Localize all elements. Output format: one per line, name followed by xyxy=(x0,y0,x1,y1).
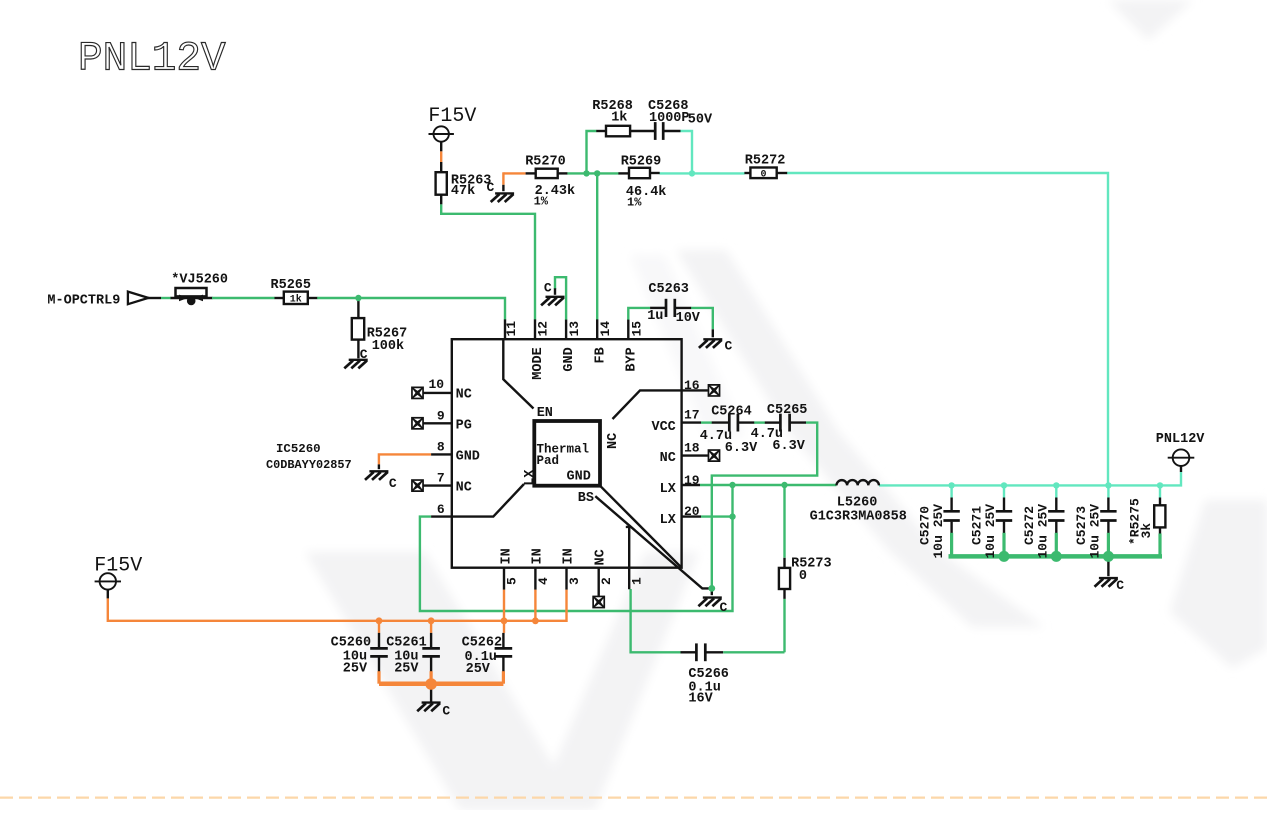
svg-text:19: 19 xyxy=(684,473,700,488)
svg-text:2: 2 xyxy=(599,577,614,585)
ground under C5260-C5262 xyxy=(417,703,440,712)
wire LX node down to R5273 xyxy=(783,485,785,558)
internal line BS to ground node xyxy=(595,496,709,588)
R5267 bottom lead xyxy=(357,340,359,359)
capacitor C5264 xyxy=(729,414,738,432)
pin 13 stub xyxy=(565,319,567,339)
pin 18 lead xyxy=(682,454,708,456)
C5271 bottom green stub xyxy=(1002,533,1005,557)
junction pin 4 xyxy=(532,617,539,624)
svg-text:25V: 25V xyxy=(343,661,368,676)
svg-text:3: 3 xyxy=(567,577,582,585)
R5265 right lead xyxy=(308,297,317,299)
C5260 bottom orange stub xyxy=(377,671,380,684)
C5266 left lead xyxy=(681,651,697,653)
stub to ground under bus xyxy=(1107,559,1109,576)
svg-text:C: C xyxy=(487,180,495,195)
ground at C5263 xyxy=(699,339,722,348)
C5261 bottom lead xyxy=(430,657,432,672)
wire R5263 to IC pin 12 MODE xyxy=(441,204,535,319)
svg-text:1%: 1% xyxy=(627,195,642,209)
svg-text:GND: GND xyxy=(562,347,577,371)
C5272 top teal stub xyxy=(1055,485,1057,497)
svg-text:VCC: VCC xyxy=(651,420,675,435)
pin 15 stub xyxy=(627,319,629,339)
internal line pin 6 to LX xyxy=(452,484,524,517)
wire FB pin 14 up to divider node xyxy=(596,173,598,319)
stub to ground at C5263 xyxy=(712,329,714,337)
pin 8 lead xyxy=(431,453,452,455)
capacitor C5272 xyxy=(1048,511,1064,520)
capacitor C5260 xyxy=(370,648,388,656)
capacitor C5262 xyxy=(495,648,513,656)
svg-text:16V: 16V xyxy=(688,692,713,707)
svg-text:C: C xyxy=(442,704,450,719)
C5264 right lead xyxy=(738,421,754,423)
resistor R5272 body xyxy=(750,168,776,179)
ground at R5267 xyxy=(344,360,367,369)
internal diagonal thermal pad to corner xyxy=(600,486,682,568)
C5273 bottom green stub xyxy=(1107,533,1110,557)
svg-text:IN: IN xyxy=(500,548,515,564)
junction FB node right xyxy=(594,170,600,176)
pin 3 lead xyxy=(565,568,567,590)
svg-text:C: C xyxy=(725,338,733,353)
R5275 top lead xyxy=(1159,498,1161,506)
stub to ground at R5270 xyxy=(502,185,504,191)
capacitor C5261 xyxy=(422,648,440,656)
svg-text:NC: NC xyxy=(594,549,609,565)
wire through VJ5260 xyxy=(171,297,213,299)
junction C5261 top xyxy=(428,617,435,624)
wire F15V bottom bus to IN pins xyxy=(108,590,567,621)
svg-text:10u 25V: 10u 25V xyxy=(1088,504,1103,559)
wire M-OPCTRL9 green segment to VJ5260 xyxy=(161,297,171,299)
no-connect symbol pin 2 xyxy=(592,596,605,609)
stub to ground at BS node xyxy=(711,591,713,595)
svg-text:EN: EN xyxy=(537,406,553,421)
svg-text:18: 18 xyxy=(684,441,700,456)
ground at pin 13 xyxy=(541,297,564,306)
svg-text:0: 0 xyxy=(799,569,807,584)
junction R5273 top xyxy=(781,482,787,488)
svg-text:C: C xyxy=(389,476,397,491)
C5260 bottom lead xyxy=(378,657,380,672)
svg-text:C5262: C5262 xyxy=(462,636,503,651)
junction ground bus C5271 xyxy=(999,551,1010,562)
svg-text:3k: 3k xyxy=(1139,523,1154,539)
wire C5263 to ground xyxy=(691,308,713,329)
pin 6 lead xyxy=(431,515,452,517)
svg-text:100k: 100k xyxy=(372,339,404,354)
IC5260 thermal pad xyxy=(534,421,600,486)
wire LX net to pin 6 xyxy=(420,485,733,611)
svg-text:GND: GND xyxy=(567,470,591,485)
svg-text:9: 9 xyxy=(437,408,445,423)
svg-text:G1C3R3MA0858: G1C3R3MA0858 xyxy=(810,510,907,525)
wire R5273 to C5266 xyxy=(783,599,785,652)
wire pin 4 IN to bus xyxy=(534,590,536,621)
inductor L5260 xyxy=(837,480,879,485)
svg-text:C5265: C5265 xyxy=(767,403,808,418)
wire bus to C5261 xyxy=(430,621,432,633)
pin 17 lead xyxy=(682,421,701,423)
wire bus to C5260 xyxy=(378,621,380,633)
resistor R5267 body xyxy=(352,318,364,340)
svg-text:5: 5 xyxy=(505,577,520,585)
svg-text:50V: 50V xyxy=(688,113,713,128)
svg-text:GND: GND xyxy=(456,449,480,464)
svg-text:C5263: C5263 xyxy=(648,282,689,297)
svg-text:C: C xyxy=(720,600,728,615)
svg-text:NC: NC xyxy=(660,451,676,466)
svg-text:IN: IN xyxy=(562,548,577,564)
svg-text:Pad: Pad xyxy=(537,454,560,468)
C5271 bottom lead xyxy=(1003,522,1005,534)
C5272 bottom lead xyxy=(1055,522,1057,534)
resistor R5273 body xyxy=(779,568,790,589)
svg-text:NC: NC xyxy=(606,433,621,449)
wire R5269 to R5272 xyxy=(660,172,745,174)
C5270 top lead xyxy=(950,498,952,511)
junction ground bus C5261 xyxy=(425,678,437,690)
svg-text:R5272: R5272 xyxy=(745,153,786,168)
C5273 top teal stub xyxy=(1107,485,1109,497)
pin 12 stub xyxy=(534,319,536,339)
svg-text:7: 7 xyxy=(437,471,445,486)
no-connect symbol pin 7 xyxy=(411,479,424,492)
svg-text:C0DBAYY02857: C0DBAYY02857 xyxy=(266,458,352,472)
svg-text:4: 4 xyxy=(536,577,551,585)
R5265 left lead xyxy=(275,297,284,299)
wire pin 13 GND hook xyxy=(555,277,566,319)
svg-text:C: C xyxy=(544,281,552,296)
svg-text:25V: 25V xyxy=(394,661,419,676)
C5262 bottom orange stub xyxy=(502,671,505,684)
C5266 right lead xyxy=(705,651,723,653)
C5270 top teal stub xyxy=(950,485,952,497)
wire VCC pin 17 to C5264 xyxy=(701,421,712,423)
junction C5270 top xyxy=(948,482,954,488)
R5267 top lead xyxy=(357,300,359,318)
stub to ground at pin 8 xyxy=(378,464,380,469)
pin 9 lead xyxy=(423,422,452,424)
capacitor C5263 xyxy=(666,299,675,317)
R5269 left lead xyxy=(618,172,629,174)
svg-text:FB: FB xyxy=(593,347,608,363)
R5270 right lead xyxy=(558,172,568,174)
svg-text:10u 25V: 10u 25V xyxy=(1036,504,1051,559)
no-connect symbol pin 10 xyxy=(411,387,424,400)
svg-text:R5273: R5273 xyxy=(791,557,832,572)
svg-text:C5264: C5264 xyxy=(711,405,752,420)
junction LX pin 20 xyxy=(729,513,735,519)
wire pin 8 GND to ground xyxy=(379,454,431,464)
svg-text:PNL12V: PNL12V xyxy=(78,37,226,83)
junction comp node xyxy=(689,170,695,176)
ground at R5270 xyxy=(491,193,514,202)
R5263 top lead xyxy=(440,162,442,172)
R5263 bottom lead xyxy=(440,195,442,205)
svg-text:F15V: F15V xyxy=(428,105,476,128)
svg-text:NC: NC xyxy=(456,481,472,496)
C5264 left lead xyxy=(712,421,730,423)
svg-text:1: 1 xyxy=(630,577,645,585)
PNL12V port stub xyxy=(1180,466,1182,472)
svg-text:1k: 1k xyxy=(611,110,627,125)
svg-text:C: C xyxy=(1116,578,1124,593)
svg-text:BYP: BYP xyxy=(624,347,639,371)
F15V bottom port stub xyxy=(107,590,109,599)
wire M-OPCTRL9 lead from port arrow xyxy=(148,297,161,299)
C5263 right lead xyxy=(675,307,691,309)
wire C5264 to C5265 xyxy=(754,421,765,423)
wire R5270 to R5269 through FB node xyxy=(567,172,618,174)
capacitor C5271 xyxy=(996,511,1012,520)
svg-text:10: 10 xyxy=(429,377,445,392)
svg-text:R5265: R5265 xyxy=(271,278,312,293)
svg-text:IC5260: IC5260 xyxy=(276,442,321,456)
no-connect symbol pin 16 xyxy=(708,384,721,397)
svg-text:6: 6 xyxy=(437,502,445,517)
junction C5272 top xyxy=(1053,482,1059,488)
C5261 bottom orange stub xyxy=(430,671,433,684)
C5272 top lead xyxy=(1055,498,1057,511)
R5275 bottom green stub xyxy=(1158,534,1161,557)
C5273 bottom lead xyxy=(1107,522,1109,534)
svg-text:MODE: MODE xyxy=(531,347,546,379)
svg-text:NC: NC xyxy=(456,387,472,402)
resistor R5265 body xyxy=(284,292,308,304)
wire pin 15 BYP to C5263 xyxy=(628,308,650,320)
wire L5260 to PNL12V port rail xyxy=(879,472,1181,485)
wire R5265 to IC pin 11 xyxy=(317,298,505,320)
C5263 left lead xyxy=(650,307,666,309)
junction at R5267 xyxy=(355,295,361,301)
wire FB node up to R5268 xyxy=(587,131,597,173)
svg-text:10V: 10V xyxy=(676,311,701,326)
wire pin 5 IN down to C5262 xyxy=(503,590,505,633)
svg-text:11: 11 xyxy=(504,321,519,337)
svg-text:R5270: R5270 xyxy=(525,155,566,170)
no-connect symbol pin 18 xyxy=(708,449,721,462)
R5275 top teal stub xyxy=(1159,485,1161,497)
C5273 top lead xyxy=(1107,498,1109,511)
svg-text:R5269: R5269 xyxy=(621,155,662,170)
pin 10 lead xyxy=(423,392,452,394)
svg-text:6.3V: 6.3V xyxy=(772,439,805,454)
pin 11 stub xyxy=(504,319,506,339)
C5271 top lead xyxy=(1003,498,1005,511)
svg-text:BS: BS xyxy=(578,491,594,506)
pin 2 lead xyxy=(598,568,600,596)
junction R5275 top xyxy=(1157,482,1163,488)
C5270 bottom lead xyxy=(950,522,952,534)
C5270 bottom green stub xyxy=(950,533,953,557)
junction C5273 top xyxy=(1105,482,1111,488)
power port F15V bottom xyxy=(95,573,121,589)
capacitor C5273 xyxy=(1100,511,1116,520)
pin 20 lead xyxy=(682,515,701,517)
junction ground bus C5272 xyxy=(1051,551,1062,562)
svg-text:C: C xyxy=(360,347,368,362)
wire VJ5260 to R5265 xyxy=(212,297,275,299)
wire F15V to R5263 orange segment xyxy=(440,151,442,162)
svg-text:0: 0 xyxy=(760,169,766,180)
svg-text:1%: 1% xyxy=(534,194,549,208)
resistor R5275 body xyxy=(1154,505,1165,527)
internal line pin 16 to NC xyxy=(613,390,682,419)
green ground bus under C5270-C5273 xyxy=(949,554,1163,559)
pin 7 lead xyxy=(423,484,452,486)
resistor R5268 body xyxy=(606,126,630,137)
ground under C5270-C5273 xyxy=(1095,578,1118,587)
wire R5272 to PNL12V output node xyxy=(787,173,1108,486)
no-connect symbol pin 9 xyxy=(411,417,424,430)
svg-text:LX: LX xyxy=(523,469,538,486)
pin 16 lead xyxy=(682,389,708,391)
internal line pin 11 to EN xyxy=(503,339,533,408)
wire pin 1 BS down to C5266 xyxy=(631,589,681,652)
svg-text:12: 12 xyxy=(536,321,551,337)
svg-text:13: 13 xyxy=(567,321,582,337)
wire down to ground at R5270 xyxy=(502,172,504,185)
svg-text:1000P: 1000P xyxy=(649,111,690,126)
svg-text:25V: 25V xyxy=(466,662,491,677)
junction BS ground node xyxy=(708,585,715,592)
ground at BS node xyxy=(698,598,721,607)
pin 1 lead to BS xyxy=(626,527,629,589)
pin 4 lead xyxy=(534,568,536,590)
R5268 right lead to C5268 xyxy=(630,130,655,132)
resistor R5270 body xyxy=(536,169,558,178)
R5268 left lead xyxy=(596,130,606,132)
R5272 left lead xyxy=(744,172,750,174)
svg-text:1k: 1k xyxy=(290,293,302,305)
pin 19 lead xyxy=(682,484,700,486)
svg-text:L5260: L5260 xyxy=(837,496,878,511)
power port F15V top xyxy=(429,126,454,141)
svg-text:*VJ5260: *VJ5260 xyxy=(171,272,228,287)
C5271 top teal stub xyxy=(1003,485,1005,497)
R5273 bottom lead xyxy=(783,589,785,599)
pin 5 lead xyxy=(503,568,505,590)
R5273 top lead xyxy=(783,558,785,568)
C5261 top lead xyxy=(430,633,432,648)
input port arrow M-OPCTRL9 xyxy=(128,292,148,305)
svg-text:6.3V: 6.3V xyxy=(725,441,758,456)
wire C5265 right to ground node near BS xyxy=(712,423,817,589)
power port PNL12V xyxy=(1168,449,1195,466)
junction C5260 top xyxy=(376,617,383,624)
wire ground to R5270 left xyxy=(503,172,525,174)
stub to ground at pin 13 xyxy=(554,288,556,295)
svg-text:PNL12V: PNL12V xyxy=(1156,432,1206,447)
svg-text:10u 25V: 10u 25V xyxy=(983,504,998,559)
R5270 left lead xyxy=(526,172,536,174)
F15V top port stub xyxy=(440,142,442,152)
IC U IC5260 body xyxy=(452,339,682,568)
wire LX pin 20 to LX net xyxy=(701,515,733,517)
junction C5262 top xyxy=(501,617,508,624)
svg-text:20: 20 xyxy=(684,504,700,519)
pin 14 stub xyxy=(596,319,598,339)
junction C5271 top xyxy=(1001,482,1007,488)
wire C5266 to R5273 node xyxy=(723,651,784,653)
wire LX pin 19 to L5260 xyxy=(700,484,837,486)
ground at pin 8 xyxy=(365,471,388,480)
C5272 bottom green stub xyxy=(1055,533,1058,557)
svg-text:M-OPCTRL9: M-OPCTRL9 xyxy=(47,294,120,309)
resistor R5263 body xyxy=(436,172,447,195)
R5275 bottom lead xyxy=(1159,527,1161,534)
svg-text:F15V: F15V xyxy=(94,555,142,578)
capacitor C5270 xyxy=(943,511,959,520)
svg-text:8: 8 xyxy=(437,439,445,454)
R5269 right lead xyxy=(650,172,660,174)
junction LX pin 19 xyxy=(729,482,735,488)
svg-text:LX: LX xyxy=(660,513,677,528)
svg-text:10u 25V: 10u 25V xyxy=(931,504,946,559)
svg-text:PG: PG xyxy=(456,418,472,433)
svg-text:47k: 47k xyxy=(451,184,475,199)
C5265 left lead xyxy=(765,421,781,423)
capacitor C5266 xyxy=(696,643,705,661)
svg-text:1u: 1u xyxy=(647,309,663,324)
capacitor C5268 xyxy=(655,122,663,140)
svg-text:17: 17 xyxy=(684,408,700,423)
junction ground bus C5273 xyxy=(1103,551,1114,562)
svg-text:LX: LX xyxy=(660,482,677,497)
wire C5268 right to comp node xyxy=(681,131,693,173)
svg-text:IN: IN xyxy=(530,548,545,564)
resistor R5269 body xyxy=(629,168,650,178)
C5262 bottom lead xyxy=(502,657,504,672)
C5265 right lead xyxy=(790,421,806,423)
svg-text:15: 15 xyxy=(629,321,644,337)
svg-text:14: 14 xyxy=(598,321,613,337)
R5272 right lead xyxy=(777,172,788,174)
svg-text:16: 16 xyxy=(684,378,700,393)
jumper *VJ5260 xyxy=(176,288,207,305)
orange ground bus under C5260-C5262 xyxy=(379,681,503,686)
junction FB node left xyxy=(583,170,589,176)
C5260 top lead xyxy=(378,633,380,648)
capacitor C5265 xyxy=(780,414,789,432)
C5268 right lead xyxy=(663,130,680,132)
stub to ground under C5261 xyxy=(430,688,432,702)
C5262 top lead xyxy=(502,633,504,648)
dashed boundary line xyxy=(0,796,1267,798)
